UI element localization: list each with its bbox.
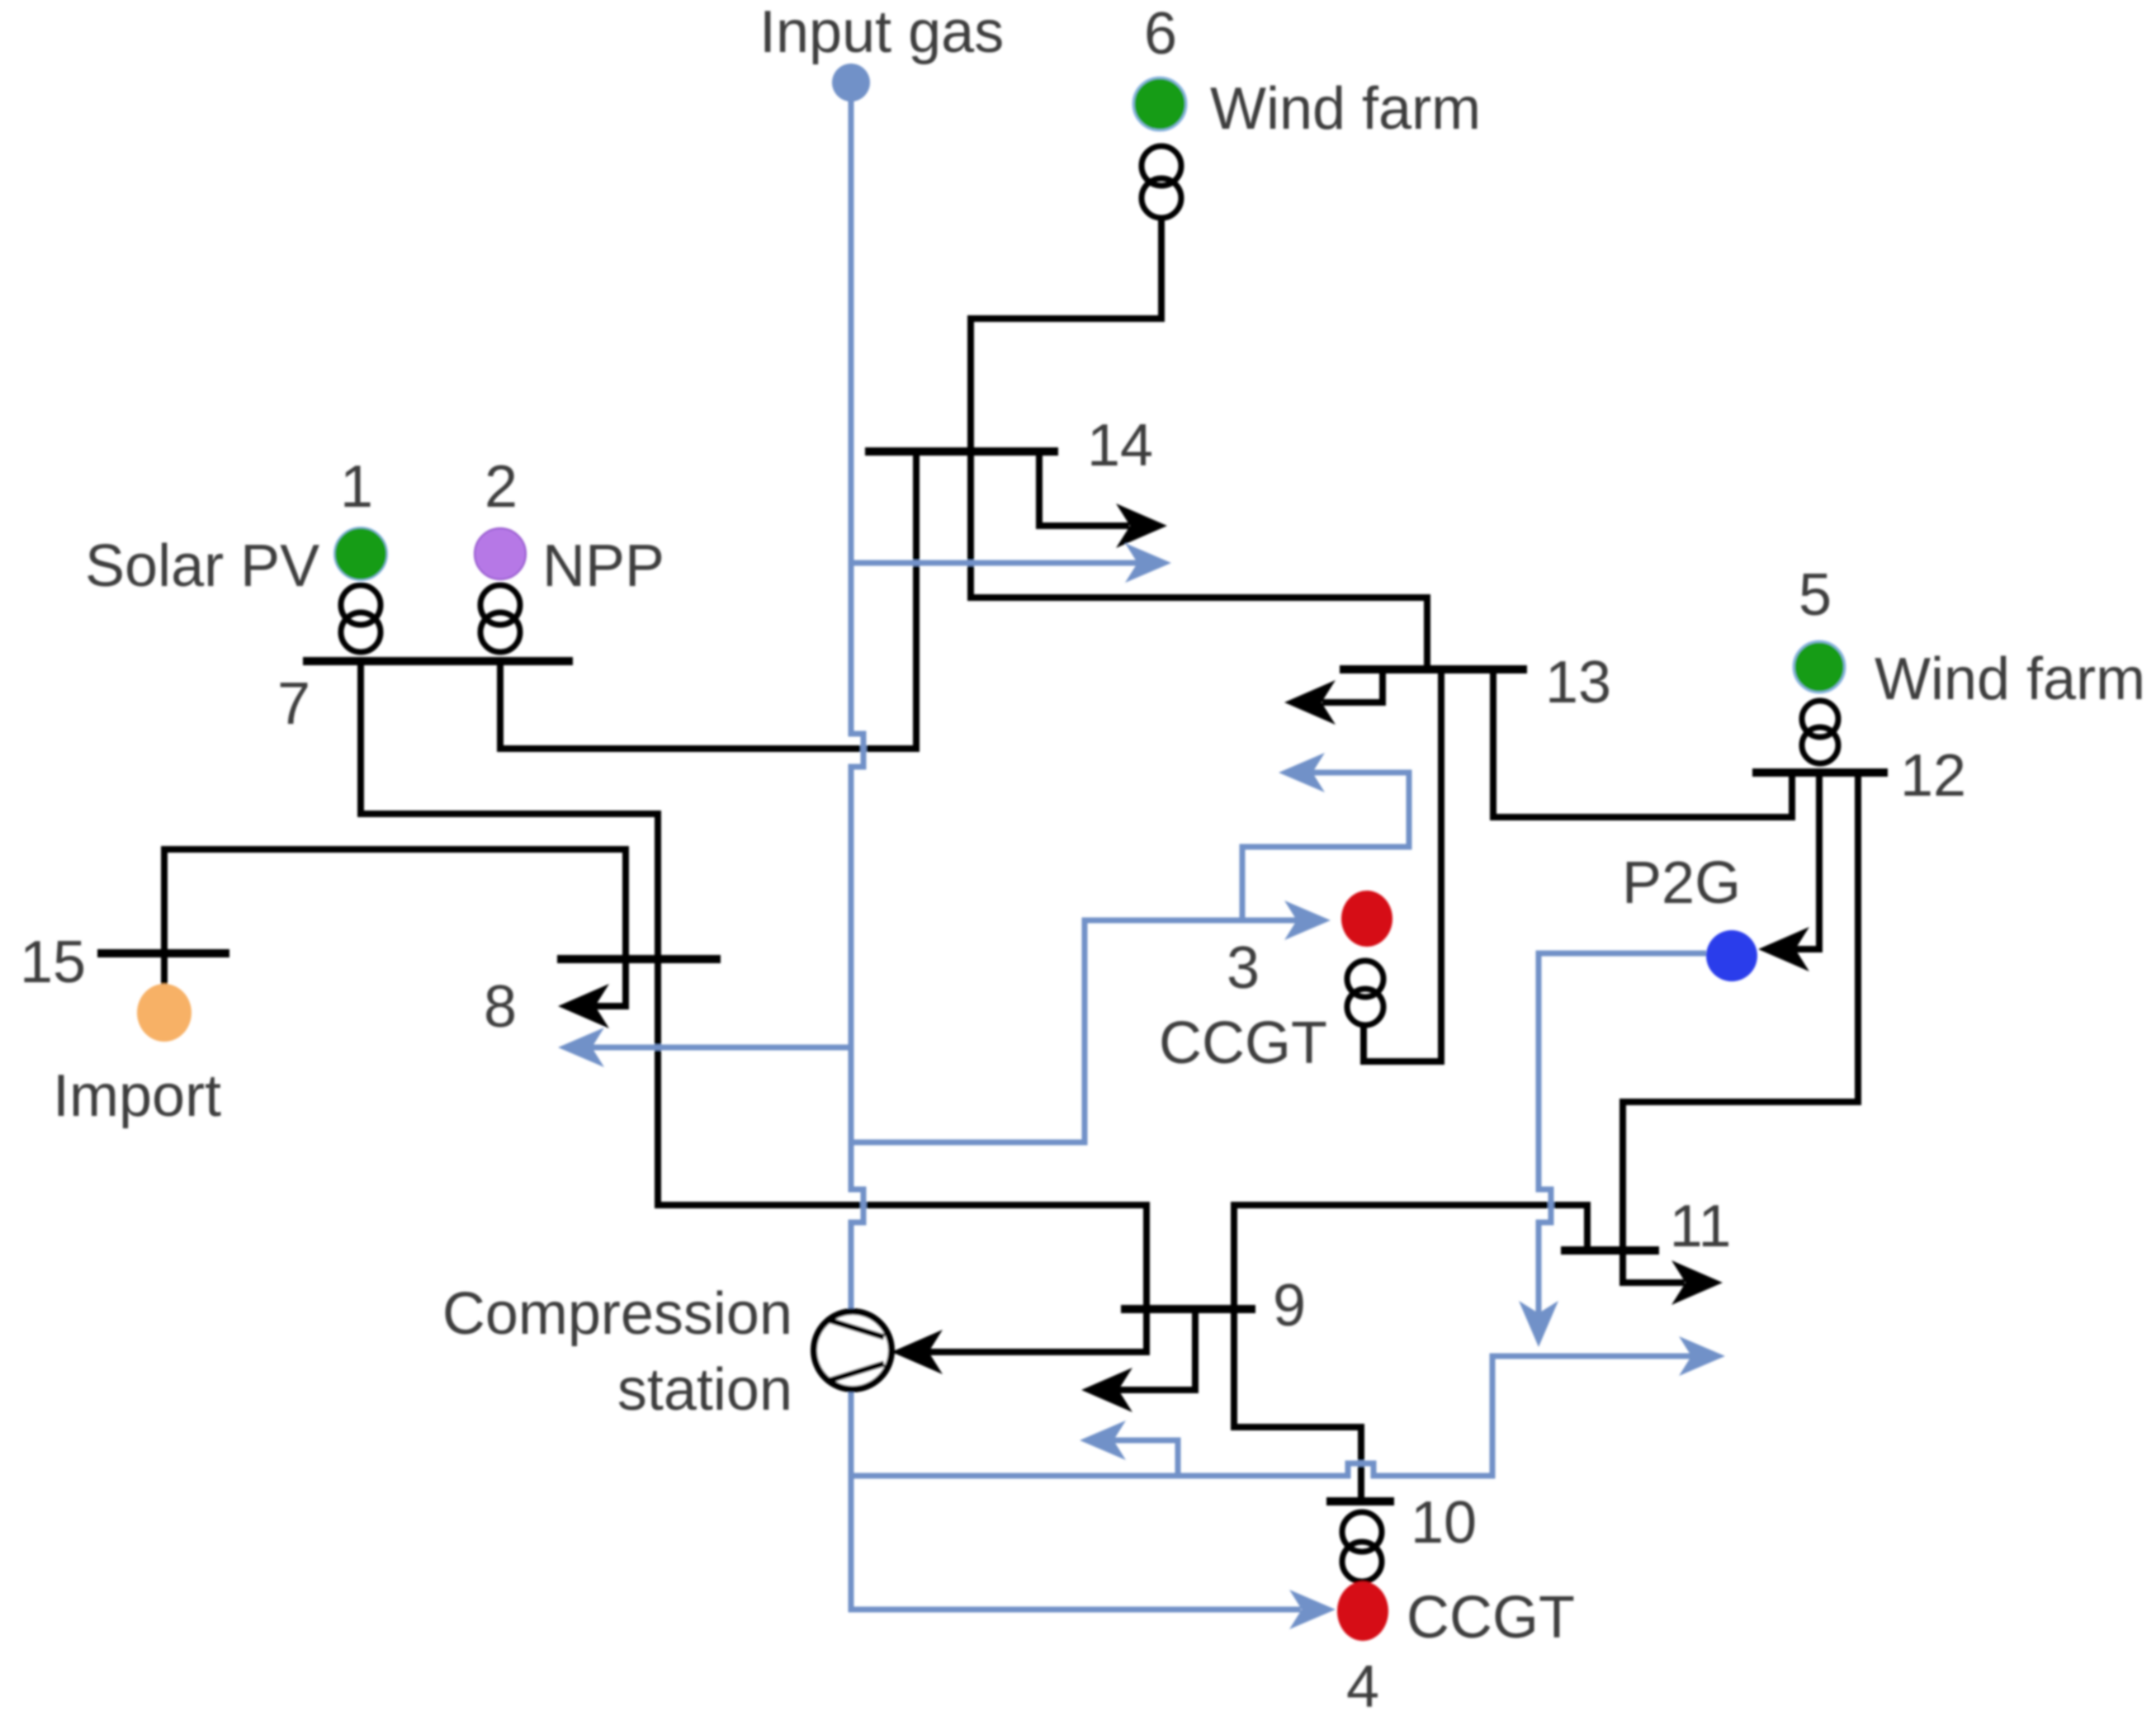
svg-text:11: 11 xyxy=(1670,1194,1732,1260)
svg-text:3: 3 xyxy=(1227,935,1260,1001)
generator 6 Wind farm circle xyxy=(1133,78,1186,130)
bus 7 bar xyxy=(303,657,573,665)
svg-text:Import: Import xyxy=(53,1063,221,1129)
svg-text:9: 9 xyxy=(1273,1273,1306,1339)
generator 2 NPP circle xyxy=(475,528,526,579)
bus 13 bar xyxy=(1340,665,1527,674)
gas arrow into CCGT 4 xyxy=(1289,1590,1336,1629)
svg-text:Wind farm: Wind farm xyxy=(1210,76,1481,142)
svg-text:Compression: Compression xyxy=(442,1281,792,1347)
generator 3 CCGT circle xyxy=(1341,891,1392,947)
transformer T10 (CCGT 4) xyxy=(1342,1512,1382,1581)
svg-text:4: 4 xyxy=(1346,1654,1379,1720)
svg-text:6: 6 xyxy=(1144,1,1177,67)
gas load arrow at bus 9 xyxy=(1109,1440,1178,1476)
svg-text:13: 13 xyxy=(1545,650,1611,716)
bus 11 bar xyxy=(1561,1246,1659,1255)
svg-text:12: 12 xyxy=(1900,743,1966,809)
svg-text:Wind farm: Wind farm xyxy=(1875,646,2145,712)
svg-text:Solar PV: Solar PV xyxy=(85,533,319,599)
compression station symbol xyxy=(814,1312,891,1389)
svg-text:10: 10 xyxy=(1411,1490,1477,1556)
gas load arrow at bus 8 xyxy=(588,1045,851,1051)
wire bus10 to bus11 (crossing bus 9 bar) xyxy=(1234,1205,1587,1501)
wire bus13 to CCGT3 transformer (loop) xyxy=(1364,669,1441,1061)
bus 9 bar xyxy=(1121,1305,1255,1313)
svg-text:CCGT: CCGT xyxy=(1407,1585,1575,1651)
svg-text:P2G: P2G xyxy=(1622,850,1741,916)
bus 12 bar xyxy=(1752,768,1888,777)
load arrow at bus 14 xyxy=(1039,451,1129,526)
svg-text:Input gas: Input gas xyxy=(759,0,1004,65)
svg-text:14: 14 xyxy=(1087,413,1153,479)
arrow into compression station xyxy=(891,1330,943,1374)
gas branch to CCGT 3 xyxy=(851,920,1301,1142)
gas load arrow at bus 14 xyxy=(851,560,1141,566)
gas main branch to bus 11 area with hop xyxy=(851,1356,1695,1476)
wire bus13 to bus12 xyxy=(1493,669,1792,817)
wire bus7 to bus14 (electric line 7-14) xyxy=(500,451,916,749)
transformer T1 (bus 1 / Solar PV) xyxy=(341,585,381,652)
transformer T3 (CCGT 3) xyxy=(1347,961,1383,1025)
svg-text:15: 15 xyxy=(20,929,86,995)
load arrow at bus 13 xyxy=(1322,669,1383,702)
generator 5 Wind farm circle xyxy=(1794,641,1845,692)
generator 4 CCGT circle xyxy=(1337,1581,1388,1641)
gas line from P2G down to main gas branch (with hop and down arrow) xyxy=(1539,953,1706,1317)
wire bus15 to bus8 xyxy=(164,849,626,986)
svg-text:5: 5 xyxy=(1799,562,1832,628)
svg-text:station: station xyxy=(617,1357,792,1423)
transformer T5 (wind farm 5) xyxy=(1802,701,1838,763)
svg-text:1: 1 xyxy=(340,454,373,520)
arrow bus12 to P2G xyxy=(1770,773,1819,949)
transformer T6 (wind farm 6) xyxy=(1142,146,1181,218)
wire bus12 to bus11 with load arrow at bus 11 xyxy=(1623,773,1858,1283)
svg-text:2: 2 xyxy=(485,454,518,520)
load arrow at bus 8 xyxy=(571,959,626,1006)
transformer T2 (bus 2 / NPP) xyxy=(480,585,520,652)
svg-text:8: 8 xyxy=(484,974,517,1040)
generator 1 Solar PV circle xyxy=(334,527,387,580)
svg-text:NPP: NPP xyxy=(542,533,664,599)
gas pipeline: main vertical from Input gas with hops, to CCGT4 arrow xyxy=(851,92,1301,1609)
gas load arrow at bus 13 xyxy=(1242,773,1409,920)
bus 14 bar xyxy=(865,447,1058,456)
svg-text:CCGT: CCGT xyxy=(1159,1010,1327,1076)
Import source circle (bus 15) xyxy=(137,984,191,1042)
bus 10 bar xyxy=(1326,1497,1394,1505)
svg-text:7: 7 xyxy=(277,671,310,737)
Input gas node dot xyxy=(832,64,870,102)
bus 15 bar xyxy=(97,949,229,957)
P2G unit circle xyxy=(1706,930,1757,981)
wire bus7-bus8-bus9 to compression station (electric line with arrow into compressor) xyxy=(361,661,1147,1352)
wire windfarm6 to bus13 (crossing bus 14 bar) xyxy=(971,220,1427,669)
bus 8 bar xyxy=(557,955,721,963)
load arrow at bus 9 xyxy=(1093,1309,1195,1390)
